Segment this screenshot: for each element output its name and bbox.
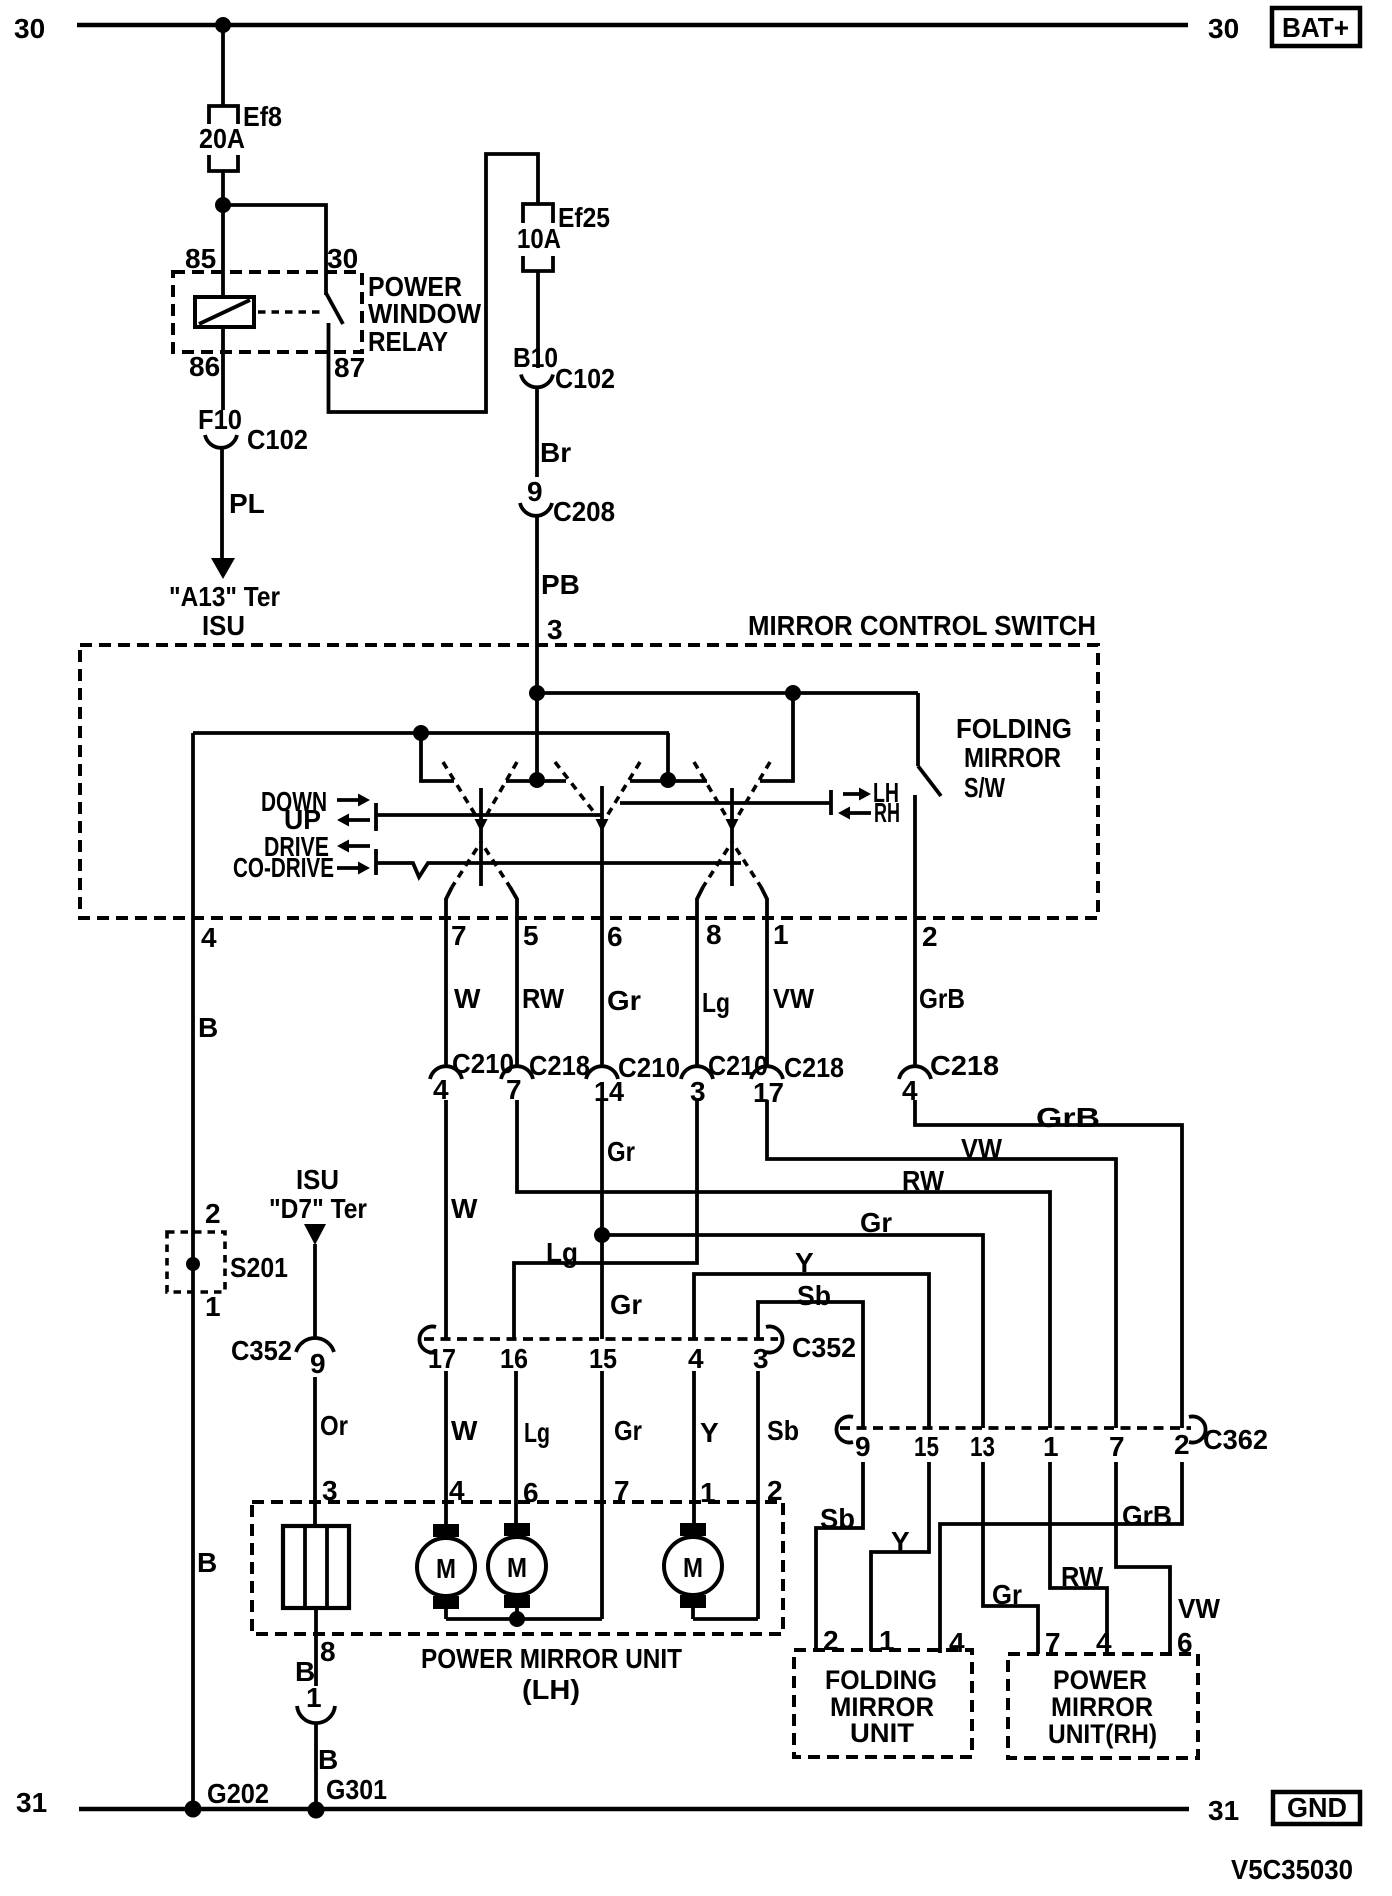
svg-text:(LH): (LH) (522, 1674, 580, 1705)
svg-text:C208: C208 (553, 496, 615, 527)
svg-text:87: 87 (334, 352, 365, 383)
svg-text:9: 9 (855, 1431, 871, 1462)
svg-text:PB: PB (541, 569, 580, 600)
svg-text:M: M (436, 1553, 456, 1584)
svg-text:2: 2 (823, 1625, 839, 1656)
svg-text:GND: GND (1287, 1792, 1347, 1823)
svg-text:B10: B10 (513, 342, 558, 373)
svg-text:Y: Y (700, 1417, 719, 1448)
svg-text:9: 9 (527, 476, 543, 507)
svg-text:5: 5 (523, 920, 539, 951)
svg-text:M: M (507, 1552, 527, 1583)
svg-text:Lg: Lg (546, 1237, 578, 1268)
svg-text:Gr: Gr (992, 1579, 1022, 1610)
svg-text:B: B (197, 1547, 217, 1578)
svg-text:F10: F10 (198, 404, 242, 435)
svg-text:"A13" Ter: "A13" Ter (169, 581, 280, 612)
svg-text:8: 8 (706, 919, 722, 950)
svg-text:RW: RW (1061, 1561, 1104, 1592)
svg-text:14: 14 (594, 1076, 624, 1107)
svg-text:30: 30 (1208, 13, 1239, 44)
svg-text:C218: C218 (784, 1052, 844, 1083)
svg-text:B: B (318, 1744, 338, 1775)
svg-text:Gr: Gr (614, 1415, 642, 1446)
svg-text:20A: 20A (199, 123, 245, 154)
svg-text:RW: RW (902, 1165, 945, 1196)
svg-text:W: W (451, 1415, 478, 1446)
svg-text:W: W (451, 1193, 478, 1224)
svg-text:3: 3 (547, 614, 563, 645)
svg-text:Gr: Gr (607, 985, 641, 1016)
svg-text:Y: Y (891, 1526, 910, 1557)
svg-text:S/W: S/W (964, 772, 1005, 803)
svg-text:1: 1 (879, 1625, 895, 1656)
svg-text:GrB: GrB (1122, 1500, 1172, 1531)
svg-text:"D7" Ter: "D7" Ter (269, 1193, 367, 1224)
svg-text:86: 86 (189, 351, 220, 382)
svg-text:RW: RW (522, 983, 565, 1014)
svg-text:Y: Y (795, 1247, 814, 1278)
svg-text:6: 6 (1177, 1627, 1193, 1658)
svg-text:VW: VW (961, 1133, 1003, 1164)
svg-text:GrB: GrB (1036, 1102, 1100, 1133)
svg-text:Sb: Sb (767, 1415, 799, 1446)
svg-text:7: 7 (451, 920, 467, 951)
svg-text:4: 4 (949, 1627, 965, 1658)
svg-text:1: 1 (700, 1477, 716, 1508)
svg-text:FOLDING: FOLDING (956, 713, 1072, 744)
svg-text:C352: C352 (792, 1332, 856, 1363)
svg-text:FOLDING: FOLDING (825, 1665, 937, 1695)
svg-text:V5C35030: V5C35030 (1231, 1854, 1353, 1885)
svg-text:8: 8 (320, 1636, 336, 1667)
svg-text:C210: C210 (452, 1048, 514, 1079)
svg-text:4: 4 (449, 1475, 465, 1506)
svg-text:POWER: POWER (1053, 1665, 1147, 1695)
svg-text:S201: S201 (230, 1252, 288, 1283)
svg-text:6: 6 (607, 921, 623, 952)
svg-text:Ef8: Ef8 (243, 101, 282, 132)
svg-text:7: 7 (1045, 1627, 1061, 1658)
svg-text:7: 7 (614, 1475, 630, 1506)
svg-text:7: 7 (1109, 1431, 1125, 1462)
svg-text:M: M (683, 1552, 703, 1583)
svg-text:VW: VW (1178, 1593, 1221, 1624)
svg-text:Sb: Sb (797, 1280, 831, 1311)
svg-text:Gr: Gr (610, 1289, 642, 1320)
svg-text:VW: VW (773, 983, 815, 1014)
svg-text:C218: C218 (930, 1050, 999, 1081)
svg-text:G301: G301 (326, 1774, 387, 1805)
svg-text:MIRROR: MIRROR (1051, 1692, 1153, 1722)
svg-text:G202: G202 (207, 1778, 269, 1809)
svg-text:Gr: Gr (607, 1136, 635, 1167)
svg-text:ISU: ISU (202, 610, 245, 641)
svg-text:31: 31 (1208, 1795, 1239, 1826)
svg-text:4: 4 (201, 922, 217, 953)
svg-text:Or: Or (320, 1410, 348, 1441)
svg-text:30: 30 (14, 13, 45, 44)
svg-text:Gr: Gr (860, 1207, 892, 1238)
svg-text:PL: PL (229, 488, 265, 519)
svg-text:6: 6 (523, 1477, 539, 1508)
svg-text:Sb: Sb (820, 1503, 855, 1534)
svg-text:1: 1 (1043, 1431, 1059, 1462)
svg-text:C210: C210 (618, 1052, 680, 1083)
svg-text:17: 17 (428, 1343, 456, 1374)
svg-text:2: 2 (205, 1198, 221, 1229)
svg-text:W: W (454, 983, 481, 1014)
svg-text:WINDOW: WINDOW (368, 298, 482, 329)
svg-text:3: 3 (753, 1343, 769, 1374)
svg-text:4: 4 (1096, 1627, 1112, 1658)
svg-text:7: 7 (506, 1074, 522, 1105)
svg-text:C102: C102 (247, 424, 308, 455)
svg-text:9: 9 (310, 1348, 326, 1379)
svg-text:Lg: Lg (524, 1417, 550, 1448)
svg-text:CO-DRIVE: CO-DRIVE (233, 852, 334, 883)
svg-text:10A: 10A (517, 223, 561, 254)
svg-text:C362: C362 (1203, 1424, 1268, 1455)
svg-text:15: 15 (914, 1431, 939, 1462)
svg-text:BAT+: BAT+ (1282, 12, 1349, 43)
svg-text:1: 1 (205, 1291, 221, 1322)
svg-text:2: 2 (922, 921, 938, 952)
svg-text:MIRROR CONTROL SWITCH: MIRROR CONTROL SWITCH (748, 610, 1096, 641)
svg-text:RELAY: RELAY (368, 326, 448, 357)
svg-text:1: 1 (306, 1682, 322, 1713)
svg-text:B: B (198, 1012, 218, 1043)
svg-text:GrB: GrB (919, 983, 965, 1014)
svg-text:16: 16 (500, 1343, 528, 1374)
svg-text:15: 15 (589, 1343, 617, 1374)
svg-text:31: 31 (16, 1787, 47, 1818)
svg-text:UNIT: UNIT (850, 1718, 915, 1748)
svg-text:ISU: ISU (296, 1164, 339, 1195)
svg-text:30: 30 (327, 243, 358, 274)
svg-text:RH: RH (874, 797, 900, 828)
svg-text:2: 2 (767, 1475, 783, 1506)
svg-text:C218: C218 (529, 1050, 590, 1081)
svg-text:C352: C352 (231, 1335, 292, 1366)
svg-text:2: 2 (1174, 1429, 1190, 1460)
svg-text:85: 85 (185, 243, 216, 274)
svg-text:4: 4 (688, 1343, 704, 1374)
svg-text:Br: Br (540, 437, 571, 468)
svg-text:POWER MIRROR UNIT: POWER MIRROR UNIT (421, 1643, 682, 1674)
svg-text:Lg: Lg (702, 987, 730, 1018)
svg-text:13: 13 (970, 1431, 995, 1462)
svg-text:MIRROR: MIRROR (964, 742, 1061, 773)
svg-text:Ef25: Ef25 (558, 202, 610, 233)
svg-text:C102: C102 (555, 363, 615, 394)
svg-text:1: 1 (773, 919, 789, 950)
svg-text:UNIT(RH): UNIT(RH) (1048, 1719, 1157, 1749)
